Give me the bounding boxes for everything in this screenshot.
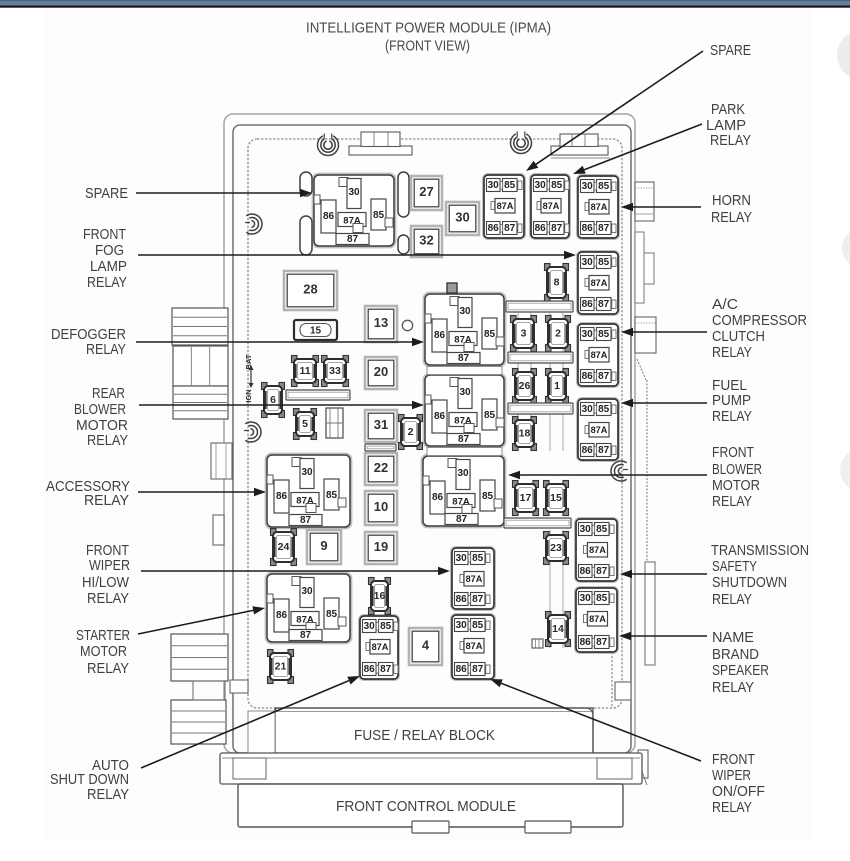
svg-text:HORN: HORN — [712, 193, 751, 209]
arrow A/C COMPRESSOR — [621, 328, 707, 336]
left connector A — [172, 308, 228, 345]
svg-text:87A: 87A — [497, 201, 514, 211]
svg-text:SPARE: SPARE — [710, 43, 751, 59]
svg-text:15: 15 — [550, 492, 562, 504]
left wall tab lower — [230, 680, 248, 693]
svg-text:31: 31 — [374, 417, 388, 432]
svg-text:85: 85 — [598, 329, 610, 340]
fuse 17 — [513, 481, 539, 516]
svg-text:85: 85 — [373, 210, 385, 221]
left panel of fuse block — [248, 711, 275, 753]
svg-text:87: 87 — [598, 223, 610, 234]
IGN-BAT legend — [244, 354, 254, 403]
label DEFOGGER RELAY — [51, 327, 126, 358]
clip left upper — [245, 214, 262, 234]
screw clip top left — [318, 134, 339, 156]
cavity 22 — [365, 453, 397, 485]
clip right mid — [611, 461, 628, 481]
fuse 8 — [545, 264, 569, 302]
svg-text:WIPER: WIPER — [89, 558, 130, 574]
svg-text:87A: 87A — [466, 641, 483, 651]
fuse 15 horizontal — [294, 320, 337, 340]
svg-text:87A: 87A — [466, 574, 483, 584]
svg-text:87: 87 — [458, 434, 470, 445]
slot pill left of spare relay lower — [300, 216, 312, 255]
svg-text:30: 30 — [456, 553, 468, 564]
arrow HORN — [621, 203, 701, 211]
svg-text:RELAY: RELAY — [712, 800, 752, 816]
svg-text:LAMP: LAMP — [90, 259, 127, 275]
svg-text:86: 86 — [580, 566, 592, 577]
svg-text:87A: 87A — [591, 425, 608, 435]
svg-text:FRONT: FRONT — [712, 752, 755, 768]
micro relay NAME BRAND SPEAKER — [575, 587, 618, 653]
svg-text:CLUTCH: CLUTCH — [712, 329, 765, 345]
front control module box — [238, 784, 623, 827]
arrow FUEL PUMP — [621, 399, 707, 407]
top browser bar — [0, 0, 850, 6]
svg-text:85: 85 — [472, 553, 484, 564]
svg-text:30: 30 — [459, 306, 471, 317]
svg-text:30: 30 — [582, 257, 594, 268]
svg-text:86: 86 — [582, 223, 594, 234]
svg-text:87: 87 — [598, 445, 610, 456]
label AUTO SHUT DOWN RELAY — [50, 758, 129, 803]
fuse channel track right column — [550, 313, 563, 451]
arrow SPARE right — [526, 51, 703, 171]
arrow STARTER MOTOR — [138, 606, 265, 634]
svg-text:87: 87 — [598, 299, 610, 310]
svg-text:87: 87 — [380, 664, 392, 675]
bar B2 — [508, 352, 573, 363]
svg-text:26: 26 — [519, 380, 531, 392]
cavity 30 square — [446, 202, 479, 235]
arrow FRONT FOG LAMP — [138, 251, 576, 259]
left wall tab upper — [211, 443, 232, 479]
micro relay A/C COMPRESSOR CLUTCH — [577, 323, 619, 387]
svg-text:A/C: A/C — [712, 297, 738, 313]
slot pill left of spare relay upper — [300, 172, 312, 196]
fuse 5 — [294, 409, 317, 440]
svg-text:30: 30 — [364, 621, 376, 632]
right wall lower outline — [637, 359, 647, 562]
faint UI circle right top — [837, 30, 850, 80]
svg-text:RELAY: RELAY — [87, 787, 129, 803]
svg-text:4: 4 — [422, 638, 430, 653]
svg-text:87: 87 — [456, 514, 468, 525]
svg-text:30: 30 — [582, 329, 594, 340]
svg-text:86: 86 — [432, 492, 444, 503]
screw clip top right — [511, 132, 532, 154]
fuse 11 — [292, 356, 319, 387]
svg-text:HI/LOW: HI/LOW — [82, 575, 129, 591]
svg-text:MOTOR: MOTOR — [80, 644, 127, 660]
bar B4 — [504, 518, 571, 528]
bottom tab right — [525, 821, 571, 833]
micro relay TRANSMISSION SAFETY SHUTDOWN — [575, 518, 618, 582]
micro relay top row 1 (spare target) — [483, 174, 525, 239]
fuse 3 — [511, 316, 537, 352]
svg-text:BLOWER: BLOWER — [712, 462, 762, 478]
svg-text:85: 85 — [504, 180, 516, 191]
svg-text:SAFETY: SAFETY — [712, 559, 757, 575]
track between defogger and rear blower relays — [427, 367, 502, 375]
svg-text:RELAY: RELAY — [711, 210, 752, 226]
svg-text:30: 30 — [301, 586, 313, 597]
fuse channel track lower right column — [550, 530, 563, 648]
svg-text:86: 86 — [582, 445, 594, 456]
svg-text:87A: 87A — [589, 545, 606, 555]
cavity 28 — [284, 271, 337, 310]
svg-text:BRAND: BRAND — [712, 647, 759, 663]
arrow REAR BLOWER — [139, 401, 424, 409]
svg-text:85: 85 — [482, 491, 494, 502]
svg-text:87: 87 — [458, 353, 470, 364]
svg-text:10: 10 — [374, 499, 388, 514]
top bracket left — [349, 132, 412, 155]
svg-text:86: 86 — [456, 664, 468, 675]
svg-text:RELAY: RELAY — [712, 680, 754, 696]
svg-text:RELAY: RELAY — [710, 133, 751, 149]
small connector near fuse 14 — [532, 639, 543, 648]
svg-text:RELAY: RELAY — [712, 494, 752, 510]
micro relay FRONT WIPER HI/LOW — [451, 547, 495, 610]
right bump B — [635, 232, 654, 303]
label TRANSMISSION SAFETY SHUTDOWN RELAY — [711, 543, 809, 608]
svg-text:85: 85 — [380, 621, 392, 632]
fuse 33 — [322, 356, 349, 387]
cavity 27 — [411, 176, 442, 210]
track between rear blower and front blower relays — [427, 448, 502, 456]
svg-text:RELAY: RELAY — [87, 591, 129, 607]
relay STARTER MOTOR — [266, 573, 352, 644]
micro relay FUEL PUMP — [577, 398, 619, 461]
svg-text:COMPRESSOR: COMPRESSOR — [712, 313, 807, 329]
svg-text:30: 30 — [535, 180, 547, 191]
right bump C — [635, 317, 656, 353]
module inner fuse area — [248, 139, 622, 708]
svg-text:INTELLIGENT POWER MODULE (IPMA: INTELLIGENT POWER MODULE (IPMA) — [306, 21, 551, 37]
svg-text:FRONT: FRONT — [712, 445, 754, 461]
svg-text:18: 18 — [519, 428, 531, 440]
svg-text:86: 86 — [580, 637, 592, 648]
fuse 2 center — [546, 316, 571, 352]
svg-text:30: 30 — [456, 620, 468, 631]
svg-text:85: 85 — [472, 620, 484, 631]
svg-text:RELAY: RELAY — [86, 342, 126, 358]
bar B3 — [508, 403, 573, 414]
svg-text:86: 86 — [276, 491, 288, 502]
connector atop defogger relay — [447, 283, 457, 293]
svg-text:86: 86 — [434, 330, 446, 341]
svg-text:30: 30 — [582, 404, 594, 415]
svg-text:30: 30 — [488, 180, 500, 191]
svg-text:85: 85 — [598, 404, 610, 415]
svg-text:FRONT: FRONT — [86, 543, 129, 559]
svg-text:RELAY: RELAY — [712, 592, 752, 608]
svg-text:SPARE: SPARE — [85, 186, 128, 202]
svg-text:22: 22 — [374, 460, 388, 475]
arrow NAME BRAND SPEAKER — [619, 632, 707, 640]
faint UI circle right lower — [840, 449, 850, 491]
svg-text:RELAY: RELAY — [84, 493, 129, 509]
label STARTER MOTOR RELAY — [76, 628, 130, 677]
svg-text:30: 30 — [459, 387, 471, 398]
svg-text:86: 86 — [323, 211, 335, 222]
cavity 9 — [307, 530, 341, 564]
svg-text:33: 33 — [329, 365, 341, 377]
arrow FRONT BLOWER — [508, 471, 707, 479]
micro relay FRONT FOG LAMP — [577, 251, 619, 315]
left wall tab small — [213, 515, 224, 545]
svg-text:8: 8 — [554, 277, 560, 289]
svg-text:14: 14 — [552, 623, 564, 635]
svg-text:FUSE / RELAY BLOCK: FUSE / RELAY BLOCK — [354, 728, 495, 744]
svg-text:REAR: REAR — [92, 386, 125, 402]
micro relay FRONT WIPER ON/OFF — [451, 614, 495, 680]
svg-text:87: 87 — [596, 566, 608, 577]
svg-text:30: 30 — [582, 181, 594, 192]
svg-text:FOG: FOG — [95, 243, 124, 259]
label FRONT BLOWER MOTOR RELAY — [712, 445, 762, 510]
right inner wall lower segment — [612, 640, 631, 708]
flange — [220, 753, 642, 784]
cavity 13 — [365, 306, 397, 342]
svg-text:BLOWER: BLOWER — [74, 402, 126, 418]
svg-text:87: 87 — [551, 223, 563, 234]
relay REAR BLOWER MOTOR — [424, 374, 506, 448]
module outer shell — [224, 114, 635, 753]
label PARK LAMP RELAY — [706, 102, 751, 149]
svg-text:21: 21 — [275, 661, 287, 673]
clip left mid — [244, 422, 261, 442]
cavity 31 — [365, 410, 397, 442]
svg-text:FUEL: FUEL — [712, 378, 747, 394]
svg-text:TRANSMISSION: TRANSMISSION — [711, 543, 809, 559]
svg-text:87: 87 — [598, 371, 610, 382]
svg-text:2: 2 — [555, 328, 561, 340]
svg-text:ON/OFF: ON/OFF — [712, 784, 765, 800]
top bracket right — [551, 134, 610, 158]
svg-text:3: 3 — [521, 328, 527, 340]
faint UI circle right mid — [842, 228, 850, 268]
fuse 6 — [262, 383, 285, 418]
arrow FRONT WIPER ON/OFF — [490, 679, 701, 761]
arrow ACCESSORY — [138, 488, 266, 496]
label ACCESSORY RELAY — [46, 479, 130, 509]
svg-text:SHUT DOWN: SHUT DOWN — [50, 772, 129, 788]
micro relay top row 2 (park lamp) — [530, 174, 570, 239]
svg-text:86: 86 — [488, 223, 500, 234]
svg-text:30: 30 — [301, 467, 313, 478]
fuse 23 — [544, 532, 569, 565]
left connector B — [173, 346, 228, 419]
svg-text:FRONT: FRONT — [83, 227, 126, 243]
svg-text:15: 15 — [310, 326, 322, 337]
arrow DEFOGGER — [136, 338, 424, 346]
fuse relay block box — [275, 708, 593, 753]
svg-text:5: 5 — [302, 418, 308, 430]
svg-text:85: 85 — [598, 257, 610, 268]
svg-text:87: 87 — [300, 630, 312, 641]
right bracket lower — [645, 562, 655, 665]
fuse channel track left column — [518, 313, 531, 451]
label SPARE left — [85, 186, 128, 202]
fuse 18 — [513, 417, 537, 451]
label NAME BRAND SPEAKER RELAY — [712, 630, 769, 696]
svg-text:85: 85 — [326, 490, 338, 501]
svg-text:PUMP: PUMP — [712, 393, 751, 409]
relay SPARE top-left (30/86/87A/85/87) — [313, 174, 396, 248]
svg-text:9: 9 — [320, 538, 327, 553]
svg-text:85: 85 — [484, 329, 496, 340]
svg-text:85: 85 — [598, 181, 610, 192]
svg-text:87A: 87A — [591, 202, 608, 212]
svg-text:86: 86 — [434, 411, 446, 422]
right small box lower — [635, 750, 648, 785]
svg-text:WIPER: WIPER — [712, 768, 751, 784]
cavity 32 — [411, 226, 442, 257]
bar under 31 — [365, 444, 396, 451]
micro relay HORN — [577, 175, 619, 239]
svg-text:RELAY: RELAY — [87, 433, 128, 449]
connector right of fuse 5 — [326, 408, 343, 438]
cavity 4 — [409, 628, 442, 665]
fuse 16 — [369, 578, 391, 615]
svg-text:86: 86 — [582, 371, 594, 382]
label FUEL PUMP RELAY — [712, 378, 752, 425]
svg-text:1: 1 — [554, 380, 560, 392]
svg-text:87: 87 — [472, 664, 484, 675]
svg-text:2: 2 — [408, 426, 414, 438]
svg-text:87A: 87A — [543, 201, 560, 211]
svg-text:17: 17 — [520, 492, 532, 504]
label FRONT FOG LAMP RELAY — [83, 227, 127, 291]
svg-text:85: 85 — [596, 593, 608, 604]
svg-text:DEFOGGER: DEFOGGER — [51, 327, 126, 343]
svg-text:MOTOR: MOTOR — [76, 418, 128, 434]
svg-text:NAME: NAME — [712, 630, 754, 646]
cavity 20 — [365, 357, 397, 389]
svg-text:86: 86 — [535, 223, 547, 234]
svg-text:30: 30 — [455, 210, 469, 225]
svg-text:PARK: PARK — [711, 102, 745, 118]
cavity 19 — [365, 532, 397, 564]
right bump A — [635, 182, 654, 221]
relay FRONT BLOWER MOTOR — [422, 455, 506, 528]
svg-text:87: 87 — [472, 594, 484, 605]
svg-text:86: 86 — [276, 610, 288, 621]
svg-text:87A: 87A — [589, 614, 606, 624]
slot pill right of spare relay upper — [398, 172, 409, 217]
left connector D — [171, 681, 226, 744]
svg-text:19: 19 — [374, 539, 388, 554]
svg-text:24: 24 — [278, 541, 290, 553]
arrow TRANSMISSION — [620, 570, 707, 578]
svg-text:85: 85 — [596, 524, 608, 535]
svg-text:SPEAKER: SPEAKER — [712, 663, 769, 679]
micro relay AUTO SHUT DOWN — [359, 615, 399, 680]
relay DEFOGGER — [424, 293, 506, 367]
svg-text:20: 20 — [374, 364, 388, 379]
svg-text:86: 86 — [582, 299, 594, 310]
svg-text:RELAY: RELAY — [712, 345, 752, 361]
bottom tab left — [412, 821, 449, 833]
fuse 14 — [546, 612, 571, 647]
svg-text:85: 85 — [484, 410, 496, 421]
fuse 24 — [271, 529, 297, 566]
svg-text:32: 32 — [419, 233, 433, 248]
svg-text:87: 87 — [347, 234, 359, 245]
svg-text:13: 13 — [374, 315, 388, 330]
fuse 26 — [513, 369, 537, 404]
svg-text:30: 30 — [348, 187, 360, 198]
circle near 13 — [402, 320, 412, 330]
svg-text:MOTOR: MOTOR — [712, 478, 760, 494]
svg-text:RELAY: RELAY — [87, 661, 129, 677]
fuse 21 — [268, 650, 294, 684]
svg-text:FRONT CONTROL MODULE: FRONT CONTROL MODULE — [336, 799, 516, 815]
svg-text:SHUTDOWN: SHUTDOWN — [712, 575, 787, 591]
svg-text:(FRONT VIEW): (FRONT VIEW) — [385, 39, 470, 55]
bar B1 — [506, 301, 573, 312]
svg-text:86: 86 — [456, 594, 468, 605]
svg-text:87A: 87A — [591, 350, 608, 360]
svg-text:30: 30 — [457, 468, 469, 479]
bar B5 — [286, 390, 350, 400]
fuse 15 center — [544, 481, 569, 516]
fuse 1 — [546, 369, 569, 404]
label FRONT WIPER HI/LOW RELAY — [82, 543, 130, 607]
svg-text:RELAY: RELAY — [712, 409, 752, 425]
slot pill right of spare relay lower — [398, 235, 409, 254]
svg-text:IGN: IGN — [244, 389, 253, 402]
arrow SPARE left — [136, 189, 312, 197]
svg-text:11: 11 — [299, 365, 310, 377]
arrow FRONT WIPER HI/LOW — [141, 567, 450, 575]
svg-text:85: 85 — [551, 180, 563, 191]
arrow AUTO SHUT DOWN — [141, 676, 360, 768]
svg-text:86: 86 — [364, 664, 376, 675]
label FRONT WIPER ON/OFF RELAY — [712, 752, 765, 816]
cavity 10 — [365, 491, 397, 525]
svg-text:87A: 87A — [591, 278, 608, 288]
arrow PARK LAMP — [573, 124, 702, 174]
svg-text:87: 87 — [300, 515, 312, 526]
svg-text:85: 85 — [326, 609, 338, 620]
fuse 2 left — [399, 415, 423, 450]
svg-text:87: 87 — [596, 637, 608, 648]
svg-text:27: 27 — [419, 184, 433, 199]
svg-text:STARTER: STARTER — [76, 628, 130, 644]
svg-text:30: 30 — [580, 524, 592, 535]
svg-text:23: 23 — [550, 542, 562, 554]
label A/C COMPRESSOR CLUTCH RELAY — [712, 297, 807, 361]
svg-text:28: 28 — [303, 282, 317, 297]
left connector C — [171, 634, 228, 681]
label HORN RELAY — [711, 193, 752, 226]
label SPARE right — [710, 43, 751, 59]
svg-text:87: 87 — [504, 223, 516, 234]
relay ACCESSORY — [266, 454, 352, 529]
label REAR BLOWER MOTOR RELAY — [74, 386, 128, 449]
svg-text:RELAY: RELAY — [87, 275, 127, 291]
svg-text:16: 16 — [374, 590, 386, 602]
svg-text:30: 30 — [580, 593, 592, 604]
svg-text:LAMP: LAMP — [706, 118, 746, 134]
svg-text:87A: 87A — [372, 642, 389, 652]
